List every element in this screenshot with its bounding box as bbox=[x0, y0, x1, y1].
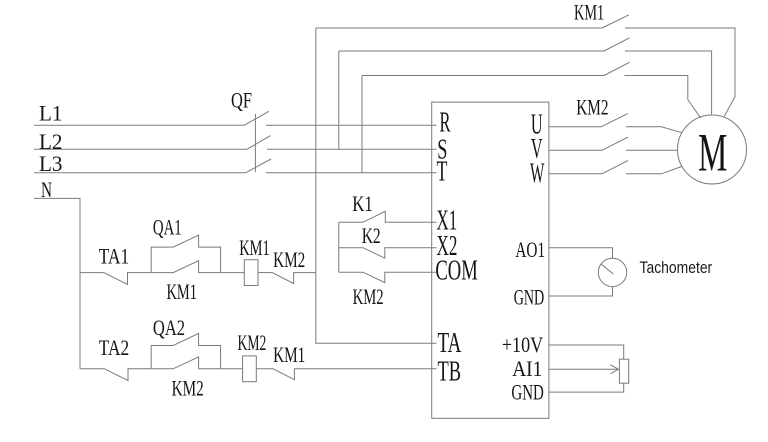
svg-text:TA1: TA1 bbox=[99, 244, 129, 269]
wire riser node R to KM1 line1 and down to TA bbox=[316, 28, 437, 343]
wire KM1 line1 right to motor bbox=[625, 28, 735, 116]
svg-text:Tachometer: Tachometer bbox=[640, 259, 713, 277]
svg-text:AI1: AI1 bbox=[512, 356, 542, 381]
wire rung1 start bbox=[80, 272, 104, 274]
contact TA1 blade bbox=[104, 273, 151, 285]
svg-text:L1: L1 bbox=[39, 101, 63, 126]
wire rung2 after coil bbox=[256, 368, 273, 370]
wire AI1 wiper bbox=[549, 368, 618, 370]
wire L2 to S bbox=[267, 148, 437, 150]
contact KM1 pole3 blade bbox=[604, 62, 630, 75]
wire L3 to T bbox=[266, 172, 437, 174]
contact TA2 blade bbox=[105, 369, 152, 381]
wire KM2 pole3 to motor bbox=[626, 166, 682, 173]
breaker QF pole 1 blade bbox=[244, 111, 269, 125]
breaker QF mechanical tie bbox=[254, 114, 256, 172]
svg-text:AO1: AO1 bbox=[515, 237, 545, 262]
contact KM1 pole1 blade bbox=[602, 15, 629, 28]
contact KM2 NC bbox=[272, 273, 316, 284]
svg-text:KM1: KM1 bbox=[239, 235, 270, 260]
contact KM1 pole2 blade bbox=[604, 38, 630, 51]
wire GND to potentiometer bbox=[549, 383, 624, 392]
wire GND to tachometer bbox=[549, 287, 613, 296]
wire W pin bbox=[549, 173, 602, 175]
svg-text:T: T bbox=[437, 157, 448, 188]
breaker QF pole 3 blade bbox=[246, 159, 272, 173]
wire KM1 line3 right to motor bbox=[625, 76, 701, 119]
svg-text:M: M bbox=[698, 122, 727, 182]
svg-text:TB: TB bbox=[438, 357, 462, 388]
contact KM2 pole2 blade bbox=[602, 137, 628, 150]
wire V pin bbox=[549, 149, 602, 151]
svg-text:QA2: QA2 bbox=[153, 315, 185, 340]
svg-text:GND: GND bbox=[514, 285, 545, 310]
contact K1 to X1 bbox=[339, 211, 437, 222]
wire KM2 pole2 to motor bbox=[626, 149, 678, 151]
svg-text:KM2: KM2 bbox=[172, 376, 204, 401]
svg-text:TA2: TA2 bbox=[99, 335, 129, 360]
wire +10V to potentiometer bbox=[549, 345, 624, 359]
wire AO1 to tachometer bbox=[549, 248, 613, 259]
motor M circle bbox=[678, 115, 747, 184]
contact K2 to X2 bbox=[339, 248, 437, 259]
svg-text:COM: COM bbox=[435, 255, 477, 286]
contact KM1 NC bbox=[273, 369, 436, 380]
wire input contact bus bbox=[338, 222, 340, 272]
svg-text:K1: K1 bbox=[352, 191, 373, 216]
contact KM1 aux bbox=[151, 261, 244, 273]
svg-text:KM1: KM1 bbox=[167, 279, 198, 304]
wire riser node S to KM1 line2 bbox=[338, 51, 340, 149]
svg-text:KM2: KM2 bbox=[353, 284, 384, 309]
tachometer needle bbox=[602, 264, 614, 274]
wire N + neutral vertical bbox=[34, 198, 80, 368]
wire L3 bbox=[34, 172, 246, 174]
wire KM1 line2 right to motor bbox=[625, 51, 712, 115]
wire L1 to R bbox=[266, 124, 437, 126]
svg-text:L3: L3 bbox=[39, 151, 63, 176]
wire KM1 line2 left bbox=[339, 50, 604, 52]
coil KM2 bbox=[243, 356, 257, 382]
wiper arrowhead bbox=[611, 365, 619, 374]
wire KM1 line3 left bbox=[362, 75, 604, 77]
wire rung1 after coil bbox=[258, 272, 272, 274]
contact KM2 aux bbox=[151, 357, 242, 369]
contact KM2 to COM bbox=[339, 272, 437, 283]
svg-text:KM2: KM2 bbox=[273, 247, 305, 272]
svg-text:KM2: KM2 bbox=[576, 95, 608, 120]
potentiometer body bbox=[619, 359, 628, 383]
inverter box U1 bbox=[432, 102, 549, 418]
svg-text:KM2: KM2 bbox=[238, 330, 267, 355]
wire rung2 start bbox=[80, 368, 105, 370]
wire L2 bbox=[34, 148, 247, 150]
svg-text:QA1: QA1 bbox=[153, 215, 182, 240]
button QA1 branch bbox=[151, 235, 220, 272]
svg-text:QF: QF bbox=[231, 88, 252, 113]
tachometer meter circle bbox=[598, 258, 626, 286]
wire L1 bbox=[34, 124, 244, 126]
breaker QF pole 2 blade bbox=[247, 136, 271, 150]
wire KM2 pole1 to motor bbox=[626, 127, 682, 133]
wire KM1 line1 left bbox=[316, 27, 602, 29]
svg-text:GND: GND bbox=[511, 380, 543, 405]
svg-text:KM1: KM1 bbox=[273, 342, 305, 367]
svg-text:KM1: KM1 bbox=[574, 0, 604, 25]
wire riser node T to KM1 line3 bbox=[361, 76, 363, 173]
svg-text:W: W bbox=[530, 158, 545, 189]
contact KM2 pole3 blade bbox=[602, 161, 628, 174]
wire U pin bbox=[549, 126, 601, 128]
coil KM1 bbox=[244, 260, 258, 286]
svg-text:+10V: +10V bbox=[502, 332, 543, 357]
svg-text:TA: TA bbox=[438, 328, 462, 359]
svg-text:K2: K2 bbox=[362, 223, 381, 248]
button QA2 branch bbox=[151, 333, 220, 368]
svg-text:N: N bbox=[41, 177, 52, 202]
contact KM2 pole1 blade bbox=[601, 114, 628, 127]
